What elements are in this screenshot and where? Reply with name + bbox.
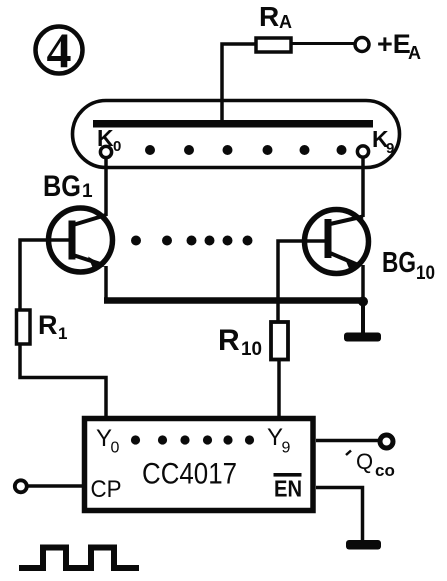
svg-text:+E: +E: [377, 29, 411, 59]
svg-text:R: R: [218, 324, 240, 357]
label K0: [97, 125, 121, 155]
svg-text:A: A: [279, 12, 292, 32]
wire junction to ground: [361, 301, 365, 336]
label K9: [372, 126, 394, 157]
wire EN to ground: [316, 488, 363, 542]
pin label Y0: [96, 425, 120, 457]
svg-text:9: 9: [386, 140, 394, 157]
IC CC4017 body: [85, 419, 314, 511]
cathode K9 terminal: [357, 146, 368, 157]
wire BG1 emitter to bus: [104, 266, 108, 300]
IC output dots: [131, 435, 254, 444]
pin label EN with overline: [274, 473, 303, 502]
wire K0 to BG1 collector: [104, 158, 108, 217]
label R1: [38, 310, 67, 343]
label BG10: [382, 247, 435, 284]
resistor RA: [256, 38, 291, 52]
transistor Q BG10: [305, 210, 369, 274]
tube cathode dots: [145, 145, 347, 155]
neon display tube envelope: [73, 101, 400, 168]
clock waveform symbol: [19, 548, 139, 569]
wire K9 to BG10 collector: [361, 157, 365, 217]
svg-text:0: 0: [113, 138, 121, 155]
svg-text:Q: Q: [356, 449, 373, 474]
wire BG10 emitter to bus: [361, 265, 365, 301]
figure number badge 4: [36, 22, 83, 78]
svg-text:R: R: [38, 310, 58, 340]
junction dot emitter bus: [358, 297, 368, 307]
svg-text:10: 10: [416, 263, 435, 284]
transistor Q BG1: [49, 208, 113, 272]
ground bar (emitters): [344, 333, 381, 342]
svg-text:CP: CP: [91, 476, 122, 503]
ground bar (EN): [346, 540, 381, 550]
svg-text:A: A: [408, 43, 421, 63]
wire anode to RA: [222, 44, 256, 124]
svg-text:9: 9: [282, 440, 291, 457]
terminal Qco: [380, 435, 393, 448]
emitter ground bus: [104, 297, 365, 304]
inter-transistor dots: [131, 236, 253, 246]
svg-text:BG: BG: [382, 247, 416, 279]
svg-text:10: 10: [241, 339, 262, 360]
svg-text:EN: EN: [274, 476, 302, 502]
wire IC to Qco terminal: [316, 439, 379, 443]
svg-text:0: 0: [111, 440, 120, 457]
label +EA: [377, 29, 421, 63]
wire CP terminal to IC: [27, 484, 85, 488]
svg-text:1: 1: [58, 324, 67, 343]
svg-text:BG: BG: [43, 170, 81, 203]
wire R10 to Y9 pin: [277, 360, 281, 419]
label R10: [218, 324, 262, 360]
svg-text:1: 1: [82, 181, 93, 202]
wire RA to +EA terminal: [291, 42, 354, 45]
svg-text:co: co: [375, 461, 395, 480]
svg-text:CC4017: CC4017: [142, 458, 237, 491]
svg-text:R: R: [259, 1, 279, 32]
cathode K0 terminal: [100, 146, 111, 157]
terminal +EA: [355, 38, 369, 52]
label Qco: [356, 449, 395, 480]
wire R1 to Y0 pin: [20, 344, 106, 418]
svg-text:4: 4: [47, 22, 72, 78]
label BG1: [43, 170, 93, 203]
anode bar: [93, 120, 373, 128]
resistor R10: [271, 322, 288, 360]
pin label Y9: [267, 424, 291, 457]
terminal CP input: [15, 480, 27, 492]
resistor R1: [17, 310, 31, 344]
stray tick near Qco: [346, 451, 351, 456]
wire BG10 base to R10: [278, 241, 326, 322]
wire BG1 base to R1: [20, 240, 70, 310]
label RA: [259, 1, 292, 32]
